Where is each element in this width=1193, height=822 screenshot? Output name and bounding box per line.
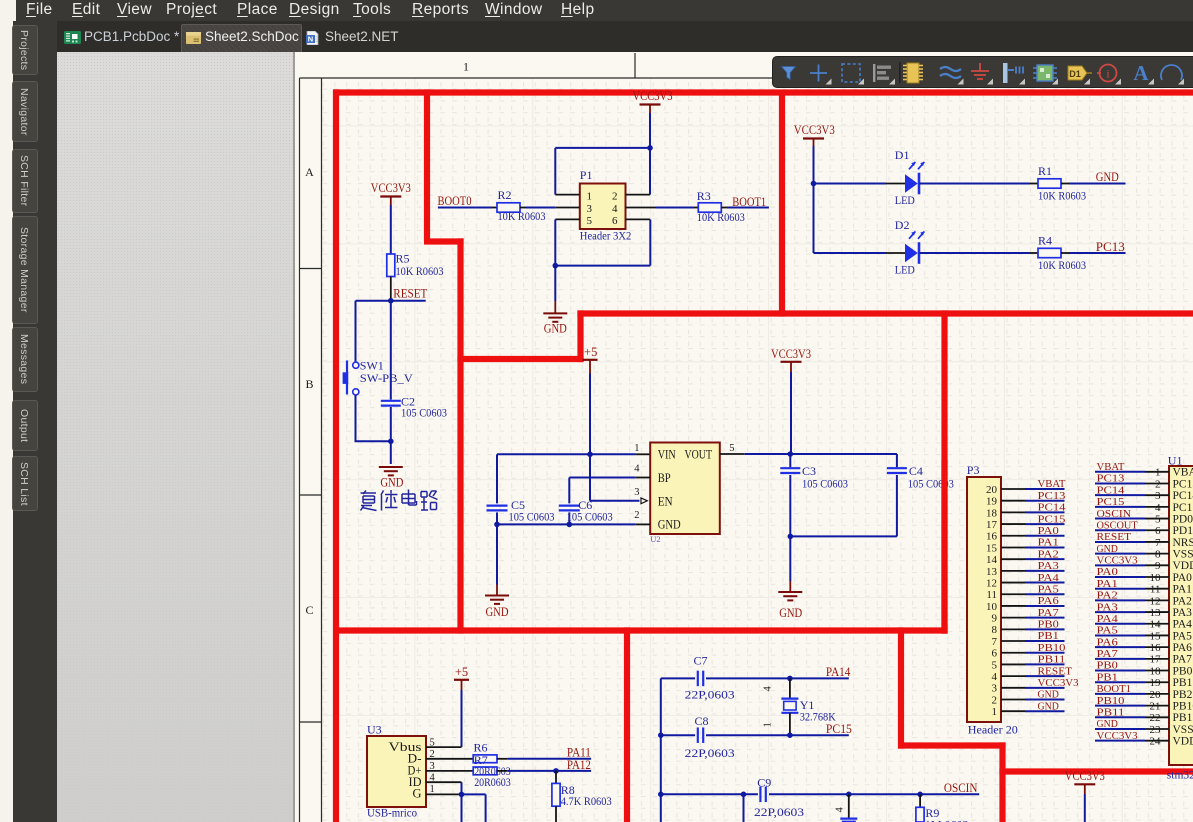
P1 pin numbers 1-6 xyxy=(587,190,619,227)
svg-text:2: 2 xyxy=(634,510,639,521)
net label PC13 (led2) xyxy=(1096,240,1125,254)
svg-text:C9: C9 xyxy=(757,776,771,790)
wire D1 cathode to R1 xyxy=(920,183,1039,185)
reset block right divider upper (red) xyxy=(424,89,430,241)
svg-text:8: 8 xyxy=(1155,549,1161,561)
svg-text:Header 3X2: Header 3X2 xyxy=(580,228,632,242)
wire RESET down to C2 xyxy=(390,301,392,400)
svg-text:VCC3V3: VCC3V3 xyxy=(771,347,811,361)
svg-text:PA3: PA3 xyxy=(1173,607,1193,619)
svg-text:PB0: PB0 xyxy=(1173,665,1193,677)
svg-text:PA5: PA5 xyxy=(1097,625,1119,637)
svg-text:12: 12 xyxy=(986,577,997,589)
svg-text:OSCOUT: OSCOUT xyxy=(1097,519,1138,531)
toolbar icon: place power port xyxy=(971,63,989,79)
label C2 105 C0603 xyxy=(401,395,447,420)
svg-text:A: A xyxy=(305,165,314,179)
svg-text:PA2: PA2 xyxy=(1097,590,1118,602)
svg-text:13: 13 xyxy=(1150,607,1162,619)
regulator top jog vertical (red) xyxy=(577,310,583,362)
wire VCC3V3 branch to D2 xyxy=(814,252,906,254)
capacitor C5 xyxy=(487,454,508,524)
P3 net labels xyxy=(1038,478,1080,712)
svg-text:GND: GND xyxy=(380,475,403,489)
svg-text:10K R0603: 10K R0603 xyxy=(498,209,546,223)
svg-text:3: 3 xyxy=(587,203,593,215)
wire to D1 anode xyxy=(814,183,906,185)
sidebar tab Storage Manager xyxy=(12,216,38,324)
label Header 3X2 xyxy=(580,228,632,242)
svg-text:PC14: PC14 xyxy=(1038,502,1066,514)
svg-text:PB10: PB10 xyxy=(1097,695,1125,707)
svg-text:6: 6 xyxy=(992,648,998,660)
svg-text:PA3: PA3 xyxy=(1038,560,1060,572)
power port text GND (regulator out) xyxy=(779,606,802,620)
svg-text:VBAT: VBAT xyxy=(1097,461,1125,473)
svg-text:GND: GND xyxy=(486,605,509,619)
power port VCC3V3 (regulator out) xyxy=(771,347,811,372)
svg-text:NRST: NRST xyxy=(1173,537,1193,549)
junction R9 top xyxy=(917,792,923,798)
svg-text:10K R0603: 10K R0603 xyxy=(1038,188,1086,202)
label C8 22P,0603 xyxy=(685,714,735,760)
svg-text:C7: C7 xyxy=(694,654,708,668)
svg-text:PA2: PA2 xyxy=(1038,548,1059,560)
toolbar icon: place pin xyxy=(1003,63,1025,85)
wire VIN row xyxy=(497,453,650,455)
svg-text:R4: R4 xyxy=(1038,233,1052,247)
power port VCC3V3 (boot block) xyxy=(633,89,673,113)
net label BOOT1 xyxy=(732,195,766,209)
svg-text:stm32F103C8T6: stm32F103C8T6 xyxy=(1167,770,1193,782)
U1 pin names xyxy=(1173,467,1193,748)
designator P3 xyxy=(967,463,980,477)
svg-text:5: 5 xyxy=(587,215,593,227)
svg-text:105 C0603: 105 C0603 xyxy=(567,509,613,523)
svg-text:PD0: PD0 xyxy=(1173,513,1193,525)
net label GND (led1) xyxy=(1096,170,1119,184)
wire R3 to BOOT1 xyxy=(721,207,769,209)
svg-text:8: 8 xyxy=(992,624,998,636)
toolbar icon: selection filter funnel xyxy=(782,67,796,80)
svg-text:18: 18 xyxy=(986,507,998,519)
junction VOUT/VCC3V3/C3 xyxy=(788,451,794,457)
svg-text:7: 7 xyxy=(992,636,998,648)
svg-text:PA6: PA6 xyxy=(1173,642,1193,654)
label C3 105 C0603 xyxy=(802,464,848,491)
svg-text:BOOT1: BOOT1 xyxy=(1097,683,1132,695)
svg-text:6: 6 xyxy=(612,215,618,227)
toolbar icon: place part xyxy=(903,63,923,83)
svg-text:1: 1 xyxy=(463,60,469,74)
svg-text:RESET: RESET xyxy=(393,287,427,301)
svg-text:PC15: PC15 xyxy=(1173,502,1193,514)
svg-text:PC13: PC13 xyxy=(1097,473,1125,485)
schematic sheet background xyxy=(295,52,1193,822)
capacitor C6 xyxy=(559,478,580,525)
svg-text:PB0: PB0 xyxy=(1038,619,1060,631)
net label PC15 xyxy=(826,722,852,736)
wire crystal left rail xyxy=(660,678,662,822)
svg-text:19: 19 xyxy=(1150,677,1162,689)
net label PA11 xyxy=(567,746,591,760)
sheet zone label 1 xyxy=(463,60,469,74)
svg-text:21: 21 xyxy=(1150,701,1161,713)
power port text GND (boot) xyxy=(544,322,567,336)
svg-text:15: 15 xyxy=(1150,630,1162,642)
svg-text:EN: EN xyxy=(658,493,674,508)
svg-text:USB-mrico: USB-mrico xyxy=(367,806,417,820)
capacitor C3 xyxy=(780,454,800,536)
svg-text:PC15: PC15 xyxy=(1038,513,1066,525)
svg-text:PA4: PA4 xyxy=(1038,572,1060,584)
svg-text:PB11: PB11 xyxy=(1173,712,1193,724)
svg-text:9: 9 xyxy=(1155,560,1161,572)
svg-text:14: 14 xyxy=(986,554,998,566)
junction C2/SW1/GND xyxy=(388,439,394,445)
svg-text:10K R0603: 10K R0603 xyxy=(697,210,745,224)
regulator block top divider (red) xyxy=(457,356,583,362)
wire VOUT to C4 branch xyxy=(790,454,897,467)
svg-text:VBAT: VBAT xyxy=(1038,478,1066,490)
svg-text:5: 5 xyxy=(1155,513,1161,525)
connector P1 Header 3X2 xyxy=(580,184,626,230)
svg-text:105 C0603: 105 C0603 xyxy=(802,476,848,490)
net label RESET xyxy=(393,287,427,301)
wire R1 to GND net xyxy=(1061,183,1126,185)
P3 net wires xyxy=(1025,489,1065,711)
svg-text:PA7: PA7 xyxy=(1097,648,1119,660)
regulator block right divider (red) xyxy=(941,310,947,633)
sidebar tab Messages xyxy=(12,327,38,392)
resistor R6 xyxy=(473,755,497,763)
svg-text:C8: C8 xyxy=(695,714,709,728)
label D2 LED xyxy=(895,218,915,277)
top horizontal divider (red) xyxy=(333,89,1193,95)
svg-text:B: B xyxy=(305,377,313,391)
U1 pin stubs xyxy=(1145,472,1169,741)
svg-text:22P,0603: 22P,0603 xyxy=(685,687,735,701)
svg-text:OSCIN: OSCIN xyxy=(944,781,978,795)
wire branch below C9 left xyxy=(743,794,745,822)
wire VCC3V3 to R5 xyxy=(390,205,392,254)
junction P1 gnd node xyxy=(553,263,559,269)
svg-text:17: 17 xyxy=(1150,654,1162,666)
sidebar tab Projects xyxy=(12,25,38,75)
svg-text:PA3: PA3 xyxy=(1097,601,1119,613)
svg-text:105 C0603: 105 C0603 xyxy=(509,509,555,523)
sidebar tab SCH Filter xyxy=(12,149,38,213)
middle horizontal divider (red) xyxy=(333,627,948,633)
svg-text:R2: R2 xyxy=(498,188,512,202)
svg-text:4: 4 xyxy=(612,203,618,215)
toolbar icon: move cross xyxy=(810,65,832,85)
Y2 pin number 4 (rotated) xyxy=(835,807,846,813)
toolbar icon: place sheet symbol xyxy=(1033,65,1058,85)
wire OSCIN row / C9 xyxy=(661,793,979,795)
junction VCC3V3/P1 pins 1-2 xyxy=(647,145,653,151)
svg-text:VBAT: VBAT xyxy=(1173,467,1193,479)
P1 pin stubs xyxy=(555,195,650,220)
svg-text:1: 1 xyxy=(634,443,639,454)
svg-text:i: i xyxy=(1106,67,1110,81)
svg-text:Header 20: Header 20 xyxy=(968,723,1018,737)
tab PCB1.PcbDoc label xyxy=(84,29,179,44)
svg-text:PC15: PC15 xyxy=(826,722,852,736)
svg-text:PA4: PA4 xyxy=(1097,613,1119,625)
connector P3 Header 20 body xyxy=(967,477,1001,722)
svg-text:PB10: PB10 xyxy=(1173,701,1193,713)
mcu U1 body (clipped) xyxy=(1169,466,1193,765)
svg-text:PA1: PA1 xyxy=(1038,537,1059,549)
reset block right divider lower (red) xyxy=(457,238,463,633)
junction C6/gnd rail xyxy=(567,522,573,528)
ground symbol (C3/C4) xyxy=(778,591,802,600)
svg-text:D2: D2 xyxy=(895,218,910,232)
svg-text:GND: GND xyxy=(544,322,567,336)
svg-text:1M 0603: 1M 0603 xyxy=(925,818,969,822)
svg-text:4.7K R0603: 4.7K R0603 xyxy=(561,794,612,808)
svg-text:VSS: VSS xyxy=(1173,549,1193,561)
svg-text:10K R0603: 10K R0603 xyxy=(396,264,444,278)
junction Y2 top xyxy=(846,792,852,798)
svg-text:SW-PB_V: SW-PB_V xyxy=(360,371,413,385)
label C6 105 C0603 xyxy=(567,498,613,523)
power port +5 (usb block) xyxy=(454,665,469,690)
svg-text:4: 4 xyxy=(763,686,774,692)
wire gnd (C3) xyxy=(789,536,791,592)
svg-text:PA6: PA6 xyxy=(1097,636,1119,648)
svg-text:VSS: VSS xyxy=(1173,724,1193,736)
U2 pin names VIN VOUT BP EN GND xyxy=(658,446,712,531)
svg-text:VCC3V3: VCC3V3 xyxy=(371,181,411,195)
junction VCC3V3/D1 xyxy=(811,181,817,187)
svg-text:N: N xyxy=(308,35,313,44)
title text 复位电路 (reset circuit) xyxy=(361,490,438,511)
label R2 10K R0603 xyxy=(498,188,546,223)
svg-text:12: 12 xyxy=(1150,595,1161,607)
wire +5 down to Vbus xyxy=(461,690,463,747)
junction C5/gnd rail xyxy=(494,522,500,528)
wire G to bottom rail xyxy=(462,794,486,822)
svg-text:PA0: PA0 xyxy=(1173,572,1193,584)
wire R6 to PA11 xyxy=(497,758,591,760)
label SW1 SW-PB_V xyxy=(360,359,413,385)
svg-text:R3: R3 xyxy=(697,189,711,203)
wire EN pin3 from +5 xyxy=(590,454,640,501)
label C7 22P,0603 xyxy=(685,654,735,702)
switch SW1 SW-PB_V xyxy=(343,361,359,396)
sheet border frame xyxy=(300,53,1193,822)
wire to ground (reset) xyxy=(390,441,392,464)
power port +5 (regulator block) xyxy=(583,345,598,374)
junction C3 bottom xyxy=(788,534,794,540)
designator U2 xyxy=(650,534,660,544)
svg-text:PA0: PA0 xyxy=(1038,525,1060,537)
minor grid dashes xyxy=(322,78,1193,822)
svg-text:RESET: RESET xyxy=(1097,531,1132,543)
label R5 10K R0603 xyxy=(396,252,444,278)
svg-text:4: 4 xyxy=(634,464,640,475)
projects panel (collapsed, empty) xyxy=(57,52,293,822)
pin R5 bottom xyxy=(390,277,392,301)
svg-text:3: 3 xyxy=(634,487,639,498)
svg-text:BOOT0: BOOT0 xyxy=(438,194,472,208)
net label OSCIN xyxy=(944,781,978,795)
crystal block right divider (red) xyxy=(898,627,904,748)
label C4 105 C0603 xyxy=(908,464,954,491)
svg-text:PB0: PB0 xyxy=(1097,660,1119,672)
svg-text:2: 2 xyxy=(992,694,998,706)
svg-text:PA1: PA1 xyxy=(1097,578,1118,590)
crystal jog vertical (red) xyxy=(999,742,1005,822)
power port VCC3V3 (reset block) xyxy=(371,181,411,205)
tab Sheet2.SchDoc icon xyxy=(186,32,201,44)
junction +5/VIN/C5 xyxy=(587,452,593,458)
svg-text:22P,0603: 22P,0603 xyxy=(685,746,735,760)
toolbar icon: place arc xyxy=(1161,65,1184,84)
svg-text:GND: GND xyxy=(779,606,802,620)
label D1 LED xyxy=(895,148,915,207)
svg-text:P3: P3 xyxy=(967,463,980,477)
junction Y1/PC15 xyxy=(787,732,793,738)
svg-text:PB1: PB1 xyxy=(1173,677,1193,689)
resistor R2 xyxy=(497,203,520,212)
wire ID down to G xyxy=(461,782,463,794)
svg-text:GND: GND xyxy=(1097,543,1118,555)
tab Sheet2.NET icon xyxy=(305,31,319,45)
junction C7/Y1 xyxy=(787,676,793,682)
svg-text:3: 3 xyxy=(992,683,998,695)
svg-text:22: 22 xyxy=(1150,712,1161,724)
svg-text:10K R0603: 10K R0603 xyxy=(1038,258,1086,272)
toolbar icon: selection area box xyxy=(842,64,864,85)
designator P1 xyxy=(580,168,593,182)
wire VCC3V3 down to node xyxy=(649,113,651,148)
svg-text:LED: LED xyxy=(895,193,915,207)
toolbar icon: place text xyxy=(1133,61,1154,85)
sheet grid area xyxy=(322,78,1193,822)
LED D1 xyxy=(905,162,924,194)
svg-text:GND: GND xyxy=(1038,700,1059,712)
capacitor C2 xyxy=(381,401,401,406)
label C5 105 C0603 xyxy=(509,498,555,523)
toolbar icon: place directive xyxy=(1097,65,1121,85)
capacitor C8 xyxy=(698,727,703,743)
svg-text:G: G xyxy=(413,787,422,801)
svg-text:4: 4 xyxy=(1155,502,1161,514)
label USB-mrico xyxy=(367,806,417,820)
svg-text:P1: P1 xyxy=(580,168,593,182)
junction ID/G xyxy=(459,792,465,798)
toolbar icon: annotate designator xyxy=(1068,66,1092,85)
ground symbol (reset block) xyxy=(379,466,403,475)
svg-text:24: 24 xyxy=(1150,736,1162,748)
wire P1 pin4 to R3 xyxy=(650,207,698,209)
power port VCC3V3 (led block) xyxy=(794,123,835,146)
capacitor C7 xyxy=(698,671,703,687)
svg-text:VOUT: VOUT xyxy=(685,446,713,461)
svg-text:PA6: PA6 xyxy=(1038,595,1060,607)
svg-text:PA7: PA7 xyxy=(1038,607,1060,619)
label Y1 32.768K xyxy=(800,698,836,724)
svg-text:VIN: VIN xyxy=(658,446,676,461)
svg-text:4: 4 xyxy=(835,807,846,813)
wire BOOT0 to R2 xyxy=(438,207,497,209)
svg-text:PA12: PA12 xyxy=(567,758,591,772)
svg-text:+5: +5 xyxy=(455,665,468,679)
U2 pin numbers xyxy=(634,443,734,521)
svg-text:OSCIN: OSCIN xyxy=(1097,508,1132,520)
svg-text:D1: D1 xyxy=(1069,69,1081,79)
wire C3/C4 bottom rail xyxy=(790,535,897,537)
svg-text:5: 5 xyxy=(992,659,998,671)
svg-text:LED: LED xyxy=(895,263,915,277)
U3 pin stubs xyxy=(426,747,473,794)
svg-text:105 C0603: 105 C0603 xyxy=(401,405,447,419)
left panel sidebar xyxy=(13,21,57,822)
svg-text:PB11: PB11 xyxy=(1097,706,1125,718)
power port text GND (reset) xyxy=(380,475,403,489)
svg-text:PC13: PC13 xyxy=(1038,490,1066,502)
sheet zone label B xyxy=(305,377,313,391)
mcu block bottom divider (red) xyxy=(999,768,1193,774)
svg-text:20: 20 xyxy=(1150,689,1162,701)
boot/led block bottom divider (red) xyxy=(577,310,1193,316)
wire RESET to SW1 branch xyxy=(355,301,357,362)
junction C8 left rail xyxy=(658,732,664,738)
resistor R9 (partial) xyxy=(916,794,924,822)
svg-text:VDD: VDD xyxy=(1173,736,1193,748)
svg-text:20R0603: 20R0603 xyxy=(474,775,511,789)
label R1 10K R0603 xyxy=(1038,164,1086,203)
svg-text:PA0: PA0 xyxy=(1097,566,1119,578)
svg-text:PD1: PD1 xyxy=(1173,525,1193,537)
LED D2 xyxy=(905,231,924,263)
wire R4 to PC13 net xyxy=(1061,252,1126,254)
wire P1 pin6 loop to gnd node xyxy=(555,219,650,265)
svg-text:BP: BP xyxy=(658,470,671,485)
svg-text:PA7: PA7 xyxy=(1173,654,1193,666)
svg-text:VCC3V3: VCC3V3 xyxy=(1065,769,1105,783)
svg-text:2: 2 xyxy=(1155,478,1161,490)
svg-text:PA4: PA4 xyxy=(1173,619,1193,631)
capacitor C9 xyxy=(760,787,765,803)
svg-text:+5: +5 xyxy=(584,345,597,359)
sidebar tab Output xyxy=(12,400,38,451)
svg-text:A: A xyxy=(1133,61,1149,85)
svg-text:11: 11 xyxy=(986,589,997,601)
wire SW1 to gnd rail xyxy=(355,395,391,441)
junction PA12/R8 xyxy=(553,768,559,774)
svg-text:4: 4 xyxy=(992,671,998,683)
active tab Sheet2.SchDoc background xyxy=(181,24,302,53)
svg-text:PA1: PA1 xyxy=(1173,584,1193,596)
Y1 pin numbers 4 / 1 (rotated) xyxy=(763,686,774,728)
svg-text:VCC3V3: VCC3V3 xyxy=(1038,677,1080,689)
crystal Y2 (partial at sheet edge) xyxy=(840,794,857,822)
application menu bar xyxy=(16,0,1193,21)
label R8 4.7K R0603 xyxy=(561,783,612,808)
svg-text:GND: GND xyxy=(658,517,681,532)
net label PA12 xyxy=(567,758,591,772)
label Header 20 xyxy=(968,723,1018,737)
usb/crystal block divider (red) xyxy=(624,627,630,822)
tab PCB1.PcbDoc icon xyxy=(64,31,81,44)
wire node to P1 pin1 (left loop) xyxy=(555,148,650,195)
svg-text:GND: GND xyxy=(1038,689,1059,701)
resistor R4 xyxy=(1038,248,1061,257)
